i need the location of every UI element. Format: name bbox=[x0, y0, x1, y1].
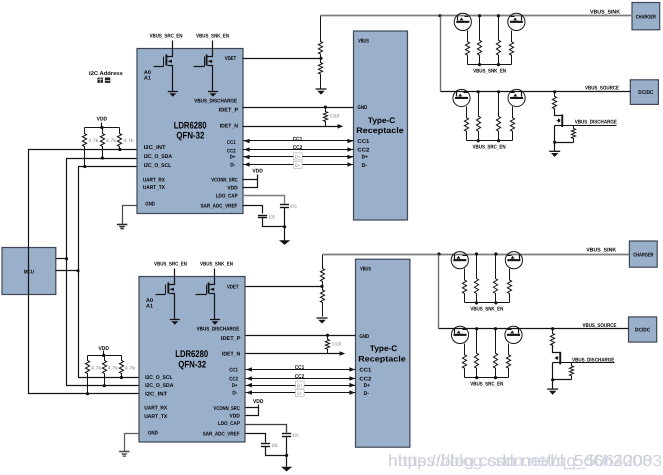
resistor 4.7k pullup INT2 bbox=[85, 356, 89, 394]
wire caps gnd U1 bbox=[284, 227, 286, 241]
CHARGER block top bbox=[632, 3, 660, 30]
svg-text:CHARGER: CHARGER bbox=[633, 253, 653, 259]
resistor discharge gate bottom bbox=[569, 363, 573, 380]
svg-text:CC2: CC2 bbox=[359, 377, 371, 383]
svg-text:VBUS_SNK_EN: VBUS_SNK_EN bbox=[473, 68, 506, 74]
junction discharge source top bbox=[553, 141, 556, 144]
arrow IDET_N top bbox=[338, 124, 344, 129]
svg-text:https://blog.csdn.net/qq_50642: https://blog.csdn.net/qq_50642003 bbox=[398, 452, 662, 470]
wire rail to source row top bbox=[440, 16, 442, 92]
resistor gate left VBUS_SNK_EN bottom bbox=[462, 269, 466, 303]
svg-text:IDET_P: IDET_P bbox=[219, 108, 239, 114]
svg-text:D+: D+ bbox=[297, 383, 303, 389]
svg-text:VDD: VDD bbox=[97, 117, 108, 123]
svg-text:IDET_P: IDET_P bbox=[221, 336, 241, 342]
svg-text:GND: GND bbox=[145, 202, 155, 208]
wire VCONN_SRC VDD U2 bbox=[246, 405, 259, 408]
svg-text:VBUS_SNK_EN: VBUS_SNK_EN bbox=[470, 307, 503, 313]
svg-text:VDD: VDD bbox=[253, 399, 264, 405]
DC/DC block bottom bbox=[629, 317, 657, 342]
svg-text:CC1: CC1 bbox=[227, 140, 236, 146]
svg-text:Receptacle: Receptacle bbox=[358, 354, 406, 363]
wire IDET_P U2 to J2 GND bbox=[246, 335, 356, 337]
svg-text:LDR6280: LDR6280 bbox=[175, 349, 208, 360]
junction bar right VBUS_SRC_EN top bbox=[497, 139, 500, 142]
arrow CC2 chip side 2 bbox=[246, 376, 252, 381]
arrow IDET_N bottom bbox=[340, 351, 346, 356]
wire GND U1 bbox=[123, 206, 137, 225]
svg-text:VBUS_SRC_EN: VBUS_SRC_EN bbox=[154, 261, 187, 267]
ground arrow caps U2 bbox=[281, 467, 292, 472]
svg-text:VBUS_SINK: VBUS_SINK bbox=[586, 248, 616, 254]
svg-text:CC2: CC2 bbox=[293, 145, 303, 151]
svg-text:DC/DC: DC/DC bbox=[635, 328, 650, 334]
resistor gate right VBUS_SRC_EN top bbox=[510, 107, 514, 141]
resistor inner right VBUS_SRC_EN bottom bbox=[493, 329, 497, 378]
junction rail inner left VBUS_SRC_EN bottom bbox=[475, 327, 478, 330]
wire VDET U1 bbox=[243, 58, 321, 60]
ground GND U2 bbox=[119, 451, 129, 453]
node D+ label box top bbox=[294, 153, 303, 160]
svg-text:D+: D+ bbox=[364, 383, 370, 389]
wire gate VBUS_DISCHARGE top bbox=[563, 125, 617, 127]
svg-text:DC/DC: DC/DC bbox=[638, 90, 653, 96]
resistor divider bottom lower bbox=[320, 287, 324, 317]
svg-text:VCONN_SRC: VCONN_SRC bbox=[213, 406, 240, 412]
wire cap475 U2 down bbox=[286, 437, 288, 456]
transistor Q_src U1 internal bbox=[167, 41, 173, 57]
wire cap475 U1 down bbox=[284, 208, 286, 227]
transistor pmos left of VBUS_SRC_EN bottom bbox=[451, 326, 468, 343]
resistor 4.7k pullup SCL bbox=[82, 128, 86, 167]
junction discharge source bottom bbox=[551, 378, 554, 381]
junction rail inner left VBUS_SRC_EN top bbox=[477, 90, 480, 93]
svg-text:4.7k: 4.7k bbox=[108, 365, 119, 370]
svg-text:Type-C: Type-C bbox=[370, 344, 398, 353]
wire I2C_INT U1 to MCU column bbox=[29, 150, 139, 394]
wire MCU stub SDA bbox=[56, 258, 67, 260]
junction bar left VBUS_SRC_EN bottom bbox=[475, 376, 478, 379]
svg-text:VDD: VDD bbox=[227, 186, 238, 192]
svg-text:VCONN_SRC: VCONN_SRC bbox=[211, 177, 238, 183]
junction MCU SDA bbox=[65, 257, 68, 260]
wire IDET_N U2 bbox=[246, 353, 341, 355]
wire discharge source bar bottom bbox=[553, 379, 572, 381]
svg-text:105: 105 bbox=[271, 443, 278, 448]
junction discharge resistor top bbox=[553, 90, 556, 93]
transistor pmos right of VBUS_SRC_EN bottom bbox=[505, 326, 522, 343]
svg-text:VBUS_SRC_EN: VBUS_SRC_EN bbox=[150, 33, 183, 39]
wire rail to source row bottom bbox=[438, 255, 440, 329]
svg-text:I2C_O_SCL: I2C_O_SCL bbox=[144, 163, 172, 169]
svg-text:VDD: VDD bbox=[252, 169, 263, 175]
arrow D- conn side 2 bbox=[349, 390, 355, 395]
transistor NMOS discharge bottom bbox=[553, 345, 560, 353]
transistor Q_snk U1 internal bbox=[207, 41, 213, 57]
wire caps gnd U2 bbox=[286, 456, 288, 467]
wire cap105 U2 down bbox=[266, 447, 287, 456]
transistor Q_src U2 internal bbox=[169, 269, 175, 285]
transistor pmos left of VBUS_SNK_EN bottom bbox=[451, 252, 468, 269]
wire LDO_CAP U1 bbox=[243, 196, 285, 204]
junction bar right VBUS_SRC_EN bottom bbox=[494, 376, 497, 379]
arrow D+ conn side 2 bbox=[349, 383, 355, 388]
arrow CC2 conn side 2 bbox=[349, 376, 355, 381]
junction rail inner left VBUS_SNK_EN bottom bbox=[475, 252, 478, 255]
wire VDET U2 bbox=[246, 286, 323, 288]
ground divider top bbox=[316, 88, 327, 90]
svg-text:I2C_O_SCL: I2C_O_SCL bbox=[145, 375, 173, 381]
ground arrow caps U1 bbox=[279, 240, 290, 245]
svg-text:GND: GND bbox=[357, 105, 367, 111]
transistor pmos right of VBUS_SNK_EN top bbox=[508, 13, 525, 30]
svg-text:VBUS_DISCHARGE: VBUS_DISCHARGE bbox=[194, 99, 237, 105]
ground below Q_src U2 bbox=[170, 319, 180, 321]
svg-text:VDET: VDET bbox=[227, 285, 239, 291]
resistor divider bottom upper bbox=[320, 255, 324, 287]
svg-text:UART_TX: UART_TX bbox=[143, 185, 165, 191]
resistor inner right VBUS_SNK_EN top bbox=[496, 16, 500, 65]
svg-text:Receptacle: Receptacle bbox=[356, 126, 404, 135]
wire D+ bottom bbox=[246, 385, 356, 387]
resistor 4.7k pullup SCL2 bbox=[119, 356, 123, 378]
junction rail inner left VBUS_SNK_EN top bbox=[478, 14, 481, 17]
wire I2C_O_SDA U1 to MCU column bbox=[67, 159, 139, 386]
junction VDD bar bottom bbox=[102, 354, 105, 357]
svg-text:4.7k: 4.7k bbox=[123, 138, 134, 143]
resistor gate left VBUS_SRC_EN top bbox=[464, 107, 468, 141]
op-amp U2 LDR6280 chip body bbox=[139, 277, 245, 443]
svg-text:CC1: CC1 bbox=[295, 365, 305, 371]
resistor inner left VBUS_SRC_EN top bbox=[476, 92, 480, 141]
capacitor 105 U2 bbox=[261, 443, 270, 445]
resistor inner left VBUS_SRC_EN bottom bbox=[474, 329, 478, 378]
wire gate bar VBUS_SNK_EN bottom bbox=[465, 302, 510, 304]
connector J2 Type-C receptacle body bbox=[356, 259, 410, 447]
arrow D- chip side bbox=[244, 162, 250, 167]
svg-text:4.7k: 4.7k bbox=[88, 138, 99, 143]
junction bar left VBUS_SNK_EN bottom bbox=[475, 301, 478, 304]
junction VDD bar top bbox=[100, 126, 103, 129]
svg-text:475: 475 bbox=[292, 433, 299, 438]
svg-text:VBUS_SNK_EN: VBUS_SNK_EN bbox=[196, 33, 229, 39]
svg-text:GND: GND bbox=[359, 334, 369, 340]
svg-text:0.01R: 0.01R bbox=[332, 342, 342, 347]
wire VBUS source row bottom bbox=[439, 328, 629, 330]
svg-text:D-: D- bbox=[364, 391, 370, 397]
junction discharge resistor bottom bbox=[551, 327, 554, 330]
junction pullup INT bbox=[118, 148, 121, 151]
svg-text:CC1: CC1 bbox=[357, 139, 369, 145]
resistor gate right VBUS_SNK_EN bottom bbox=[507, 269, 511, 303]
wire VBUS rail top bbox=[321, 15, 633, 17]
wire CC2 top bbox=[243, 149, 354, 151]
svg-text:VBUS_SINK: VBUS_SINK bbox=[590, 9, 620, 15]
transistor pmos right of VBUS_SRC_EN top bbox=[508, 89, 525, 106]
resistor gate right VBUS_SNK_EN top bbox=[509, 31, 513, 65]
svg-text:I2C_O_SDA: I2C_O_SDA bbox=[144, 154, 172, 160]
wire MCU stub SCL bbox=[56, 270, 79, 272]
svg-text:UART_RX: UART_RX bbox=[143, 177, 165, 183]
svg-text:UART_RX: UART_RX bbox=[144, 406, 167, 412]
junction bar left VBUS_SRC_EN top bbox=[477, 139, 480, 142]
svg-text:VBUS: VBUS bbox=[358, 39, 369, 45]
node D- label box bottom bbox=[296, 389, 305, 396]
svg-text:VBUS_SOURCE: VBUS_SOURCE bbox=[583, 323, 617, 329]
wire cap105 U1 down bbox=[263, 218, 285, 227]
svg-text:D-: D- bbox=[362, 163, 368, 169]
svg-text:QFN-32: QFN-32 bbox=[176, 131, 204, 142]
op-amp U1 LDR6280 chip body bbox=[137, 49, 243, 214]
arrow CC1 chip side 2 bbox=[246, 367, 252, 372]
svg-text:VBUS_SRC_EN: VBUS_SRC_EN bbox=[470, 381, 503, 387]
arrow D+ chip side 2 bbox=[246, 383, 252, 388]
transistor NMOS discharge top bbox=[554, 115, 556, 117]
DC/DC block top bbox=[630, 80, 658, 105]
svg-text:D-: D- bbox=[232, 391, 237, 397]
junction bar left VBUS_SNK_EN top bbox=[478, 63, 481, 66]
resistor inner right VBUS_SNK_EN bottom bbox=[493, 255, 497, 303]
junction rail drop bottom bbox=[437, 252, 440, 255]
svg-text:LDO_CAP: LDO_CAP bbox=[218, 421, 240, 427]
junction rail inner right VBUS_SNK_EN top bbox=[497, 14, 500, 17]
svg-text:4.7k: 4.7k bbox=[125, 365, 136, 370]
wire IDET_P U1 to J1 GND bbox=[243, 107, 354, 109]
resistor discharge pull top bbox=[552, 92, 556, 116]
ground divider bottom bbox=[317, 317, 328, 319]
junction pullup SCL bbox=[83, 165, 86, 168]
resistor gate right VBUS_SRC_EN bottom bbox=[506, 344, 510, 378]
svg-text:CC1: CC1 bbox=[293, 136, 303, 142]
junction rail inner right VBUS_SNK_EN bottom bbox=[494, 252, 497, 255]
wire CC2 bottom bbox=[246, 378, 356, 380]
MCU block bbox=[2, 248, 56, 295]
svg-text:I2C_INT: I2C_INT bbox=[145, 391, 168, 397]
arrow CC2 chip side bbox=[244, 147, 250, 152]
wire D- top bbox=[243, 164, 354, 166]
arrow D- chip side 2 bbox=[246, 390, 252, 395]
resistor inner left VBUS_SNK_EN bottom bbox=[474, 255, 478, 303]
wire LDO_CAP U2 bbox=[246, 425, 287, 433]
wire SAR_ADC_VREF U1 bbox=[243, 206, 263, 214]
svg-text:VDET: VDET bbox=[225, 56, 237, 62]
svg-text:D+: D+ bbox=[232, 383, 238, 389]
svg-text:VBUS_DISCHARGE: VBUS_DISCHARGE bbox=[197, 327, 240, 333]
svg-text:D-: D- bbox=[295, 163, 300, 169]
wire VDD stub bottom bbox=[103, 351, 105, 356]
arrow CC1 conn side bbox=[347, 139, 353, 144]
resistor 4.7k pullup INT bbox=[117, 128, 121, 150]
wire D+ top bbox=[243, 156, 354, 158]
ground discharge bottom bbox=[547, 388, 558, 390]
resistor divider top lower bbox=[318, 59, 322, 89]
junction rail drop top bbox=[438, 14, 441, 17]
junction rail inner right VBUS_SRC_EN bottom bbox=[494, 327, 497, 330]
wire VDD bar top bbox=[85, 127, 120, 129]
resistor inner left VBUS_SNK_EN top bbox=[477, 16, 481, 65]
svg-text:D-: D- bbox=[230, 162, 235, 168]
wire VDD bar bottom bbox=[88, 355, 122, 357]
junction rail inner right VBUS_SRC_EN top bbox=[497, 90, 500, 93]
connector J1 Type-C receptacle body bbox=[354, 31, 408, 220]
resistor 4.7k pullup SDA2 bbox=[102, 356, 106, 386]
svg-text:CC2: CC2 bbox=[229, 377, 238, 383]
junction caps U2 bbox=[285, 454, 288, 457]
junction pullup SDA2 bbox=[103, 384, 106, 387]
transistor pmos right of VBUS_SNK_EN bottom bbox=[505, 252, 522, 269]
svg-text:IDET_N: IDET_N bbox=[222, 351, 240, 357]
svg-text:GND: GND bbox=[148, 430, 158, 436]
svg-text:I2C Address: I2C Address bbox=[89, 71, 123, 77]
capacitor 105 U1 bbox=[258, 215, 267, 217]
resistor discharge pull bottom bbox=[550, 329, 554, 353]
svg-text:VBUS: VBUS bbox=[360, 267, 371, 273]
wire VBUS source row top bbox=[441, 91, 631, 93]
svg-text:VBUS_SRC_EN: VBUS_SRC_EN bbox=[473, 144, 506, 150]
node D+ label box bottom bbox=[296, 381, 305, 388]
svg-text:CC2: CC2 bbox=[227, 148, 236, 154]
svg-text:D+: D+ bbox=[230, 155, 236, 161]
junction MCU SCL bbox=[76, 269, 79, 272]
wire discharge source bar top bbox=[555, 142, 574, 144]
svg-text:VBUS_SOURCE: VBUS_SOURCE bbox=[585, 86, 619, 92]
junction pullup SCL2 bbox=[120, 376, 123, 379]
svg-text:CC1: CC1 bbox=[229, 367, 238, 373]
svg-text:VBUS_SNK_EN: VBUS_SNK_EN bbox=[200, 261, 233, 267]
wire CC1 bottom bbox=[246, 369, 356, 371]
wire discharge gnd bottom bbox=[552, 380, 554, 390]
wire D- bottom bbox=[246, 392, 356, 394]
svg-text:105: 105 bbox=[268, 215, 275, 220]
node D- label box top bbox=[294, 161, 303, 168]
svg-text:A1: A1 bbox=[144, 76, 151, 82]
svg-text:VBUS_DISCHARGE: VBUS_DISCHARGE bbox=[572, 358, 615, 364]
svg-text:QFN-32: QFN-32 bbox=[178, 360, 206, 371]
svg-text:D+: D+ bbox=[362, 154, 368, 160]
junction VDET divider top bbox=[319, 57, 322, 60]
wire VDD stub top bbox=[101, 123, 103, 128]
transistor pmos left of VBUS_SRC_EN top bbox=[453, 89, 470, 106]
wire VBUS rail bottom bbox=[323, 254, 630, 256]
arrow D+ chip side bbox=[244, 155, 250, 160]
resistor divider top upper bbox=[318, 16, 322, 59]
arrow D- conn side bbox=[347, 162, 353, 167]
wire discharge gnd top bbox=[554, 143, 556, 152]
ground GND U1 bbox=[117, 224, 127, 226]
transistor pmos left of VBUS_SNK_EN top bbox=[454, 13, 471, 30]
wire SAR_ADC_VREF U2 bbox=[246, 434, 266, 443]
junction caps U1 bbox=[283, 225, 286, 228]
annotation chinese config glyphs bbox=[98, 78, 111, 83]
ground below Q_snk U1 bbox=[208, 91, 218, 93]
ground below Q_src U1 bbox=[168, 91, 178, 93]
ground discharge top bbox=[549, 150, 560, 152]
arrow CC1 chip side bbox=[244, 139, 250, 144]
arrow D+ conn side bbox=[347, 155, 353, 160]
CHARGER block bottom bbox=[629, 241, 657, 267]
arrow CC1 conn side 2 bbox=[349, 367, 355, 372]
svg-text:LDO_CAP: LDO_CAP bbox=[216, 194, 238, 200]
svg-text:I2C_INT: I2C_INT bbox=[144, 145, 167, 151]
wire GND U2 bbox=[125, 434, 139, 452]
junction IDET_P sense bbox=[324, 106, 327, 109]
junction bar right VBUS_SNK_EN bottom bbox=[494, 301, 497, 304]
svg-text:D-: D- bbox=[297, 391, 302, 397]
svg-text:VDD: VDD bbox=[229, 414, 240, 420]
resistor 4.7k pullup SDA bbox=[100, 128, 104, 159]
svg-text:475: 475 bbox=[290, 204, 297, 209]
svg-text:CC2: CC2 bbox=[295, 374, 305, 380]
wire gate VBUS_DISCHARGE bottom bbox=[561, 362, 615, 364]
resistor discharge gate top bbox=[571, 126, 575, 143]
svg-text:4.7k: 4.7k bbox=[106, 138, 117, 143]
svg-text:SAR_ADC_VREF: SAR_ADC_VREF bbox=[203, 432, 240, 438]
svg-text:VBUS_DISCHARGE: VBUS_DISCHARGE bbox=[575, 120, 618, 126]
svg-text:4.7k: 4.7k bbox=[91, 365, 102, 370]
capacitor 475 U1 bbox=[280, 204, 289, 206]
svg-text:UART_TX: UART_TX bbox=[144, 414, 167, 420]
svg-text:IDET_N: IDET_N bbox=[220, 123, 238, 129]
svg-text:CC2: CC2 bbox=[357, 148, 369, 154]
junction VDET divider bottom bbox=[320, 285, 323, 288]
wire gate bar VBUS_SNK_EN top bbox=[468, 64, 512, 66]
junction bar right VBUS_SNK_EN top bbox=[497, 63, 500, 66]
wire gate bar VBUS_SRC_EN bottom bbox=[465, 377, 509, 379]
svg-text:SAR_ADC_VREF: SAR_ADC_VREF bbox=[201, 204, 238, 210]
wire IDET_N U1 bbox=[243, 126, 339, 128]
resistor inner right VBUS_SRC_EN top bbox=[496, 92, 500, 141]
arrow CC2 conn side bbox=[347, 147, 353, 152]
svg-text:A1: A1 bbox=[146, 304, 153, 310]
ground below Q_snk U2 bbox=[210, 319, 220, 321]
svg-text:D+: D+ bbox=[295, 155, 301, 161]
wire gate bar VBUS_SRC_EN top bbox=[467, 140, 513, 142]
junction pullup INT2 bbox=[86, 392, 89, 395]
junction pullup SDA bbox=[101, 156, 104, 159]
transistor Q_snk U2 internal bbox=[209, 269, 215, 285]
wire I2C_O_SCL U1 to MCU column bbox=[79, 167, 139, 378]
resistor 0.01R sense top bbox=[323, 108, 327, 127]
resistor gate left VBUS_SNK_EN top bbox=[465, 31, 469, 65]
svg-text:0.01R: 0.01R bbox=[330, 114, 340, 119]
capacitor 475 U2 bbox=[282, 433, 291, 435]
svg-text:Type-C: Type-C bbox=[368, 116, 396, 125]
svg-text:CC1: CC1 bbox=[359, 367, 371, 373]
resistor gate left VBUS_SRC_EN bottom bbox=[462, 344, 466, 378]
svg-text:CHARGER: CHARGER bbox=[636, 14, 656, 20]
wire CC1 top bbox=[243, 140, 354, 142]
resistor 0.01R sense bottom bbox=[325, 336, 329, 354]
wire VCONN_SRC VDD U1 bbox=[243, 175, 258, 180]
svg-text:I2C_O_SDA: I2C_O_SDA bbox=[145, 383, 173, 389]
junction IDET_P sense 2 bbox=[326, 334, 329, 337]
